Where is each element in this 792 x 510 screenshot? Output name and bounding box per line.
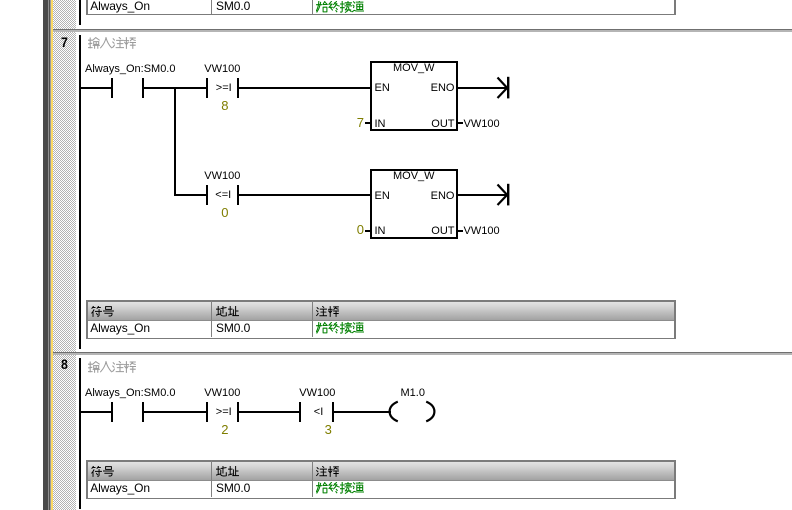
left chrome: dark window edge bars <box>43 0 48 510</box>
wire branch to comparison (rung 2) <box>174 194 206 196</box>
dithered network-number margin <box>53 0 77 510</box>
wire comparison to box2 EN <box>239 194 370 196</box>
wire comparison 1 to comparison 2 (network 8) <box>239 411 299 413</box>
MOV_W box 2 with pins EN ENO IN OUT <box>370 169 458 239</box>
ENO out wire (rung 2) <box>458 194 508 196</box>
wire comparison to box EN <box>239 87 370 89</box>
contact bar right <box>142 78 144 98</box>
header 符号 <box>91 306 131 317</box>
contact bar left <box>111 78 113 98</box>
header 注释 <box>316 306 356 317</box>
wire comparison 2 to coil (network 8) <box>334 411 391 413</box>
wire rail to contact (network 8) <box>80 411 111 413</box>
ENO out wire <box>458 87 508 89</box>
continuation arrow 1 <box>495 75 511 101</box>
IN operand 0 with stub wire <box>348 223 364 236</box>
wire contact to comparison <box>144 87 207 89</box>
yellow margin line <box>51 0 53 510</box>
row: Always_On / SM0.0 / comment <box>90 0 150 13</box>
MOV_W box 1 <box>370 61 458 131</box>
wire contact to comparison 1 (network 8) <box>144 411 207 413</box>
network comment 输入注释 <box>88 361 138 373</box>
comparison contact VW100 >= 8 <box>204 63 240 75</box>
comparison contact VW100 >=I 2 <box>204 387 240 399</box>
OUT operand VW100 with stub wire <box>458 230 464 232</box>
comparison contact VW100 <=I 0 <box>204 170 240 182</box>
continuation arrow 2 <box>495 182 511 208</box>
comparison contact VW100 <I 3 <box>299 387 335 399</box>
OUT operand VW100 <box>458 122 464 124</box>
network separator 2 <box>53 352 792 353</box>
header 地址 <box>216 306 256 317</box>
branch junction down <box>174 87 176 196</box>
IN operand 7 <box>348 116 364 129</box>
left power rail (net6 remnant) <box>79 0 81 25</box>
network number 8 <box>61 358 68 371</box>
contact Always_On:SM0.0 (network 8) <box>85 387 175 399</box>
contact bar right (network 8) <box>142 402 144 422</box>
wire rail to contact <box>80 87 111 89</box>
contact Always_On:SM0.0 label <box>85 63 175 75</box>
left power rail net8 <box>79 358 81 509</box>
network comment 输入注释 <box>88 37 138 49</box>
coil M1.0 <box>401 387 425 399</box>
left power rail net7 <box>79 35 81 349</box>
data row <box>90 322 150 335</box>
green comment 始终接通 <box>316 1 366 13</box>
contact bar left (network 8) <box>111 402 113 422</box>
network number 7 <box>61 36 68 49</box>
network separator 1 <box>53 29 792 30</box>
